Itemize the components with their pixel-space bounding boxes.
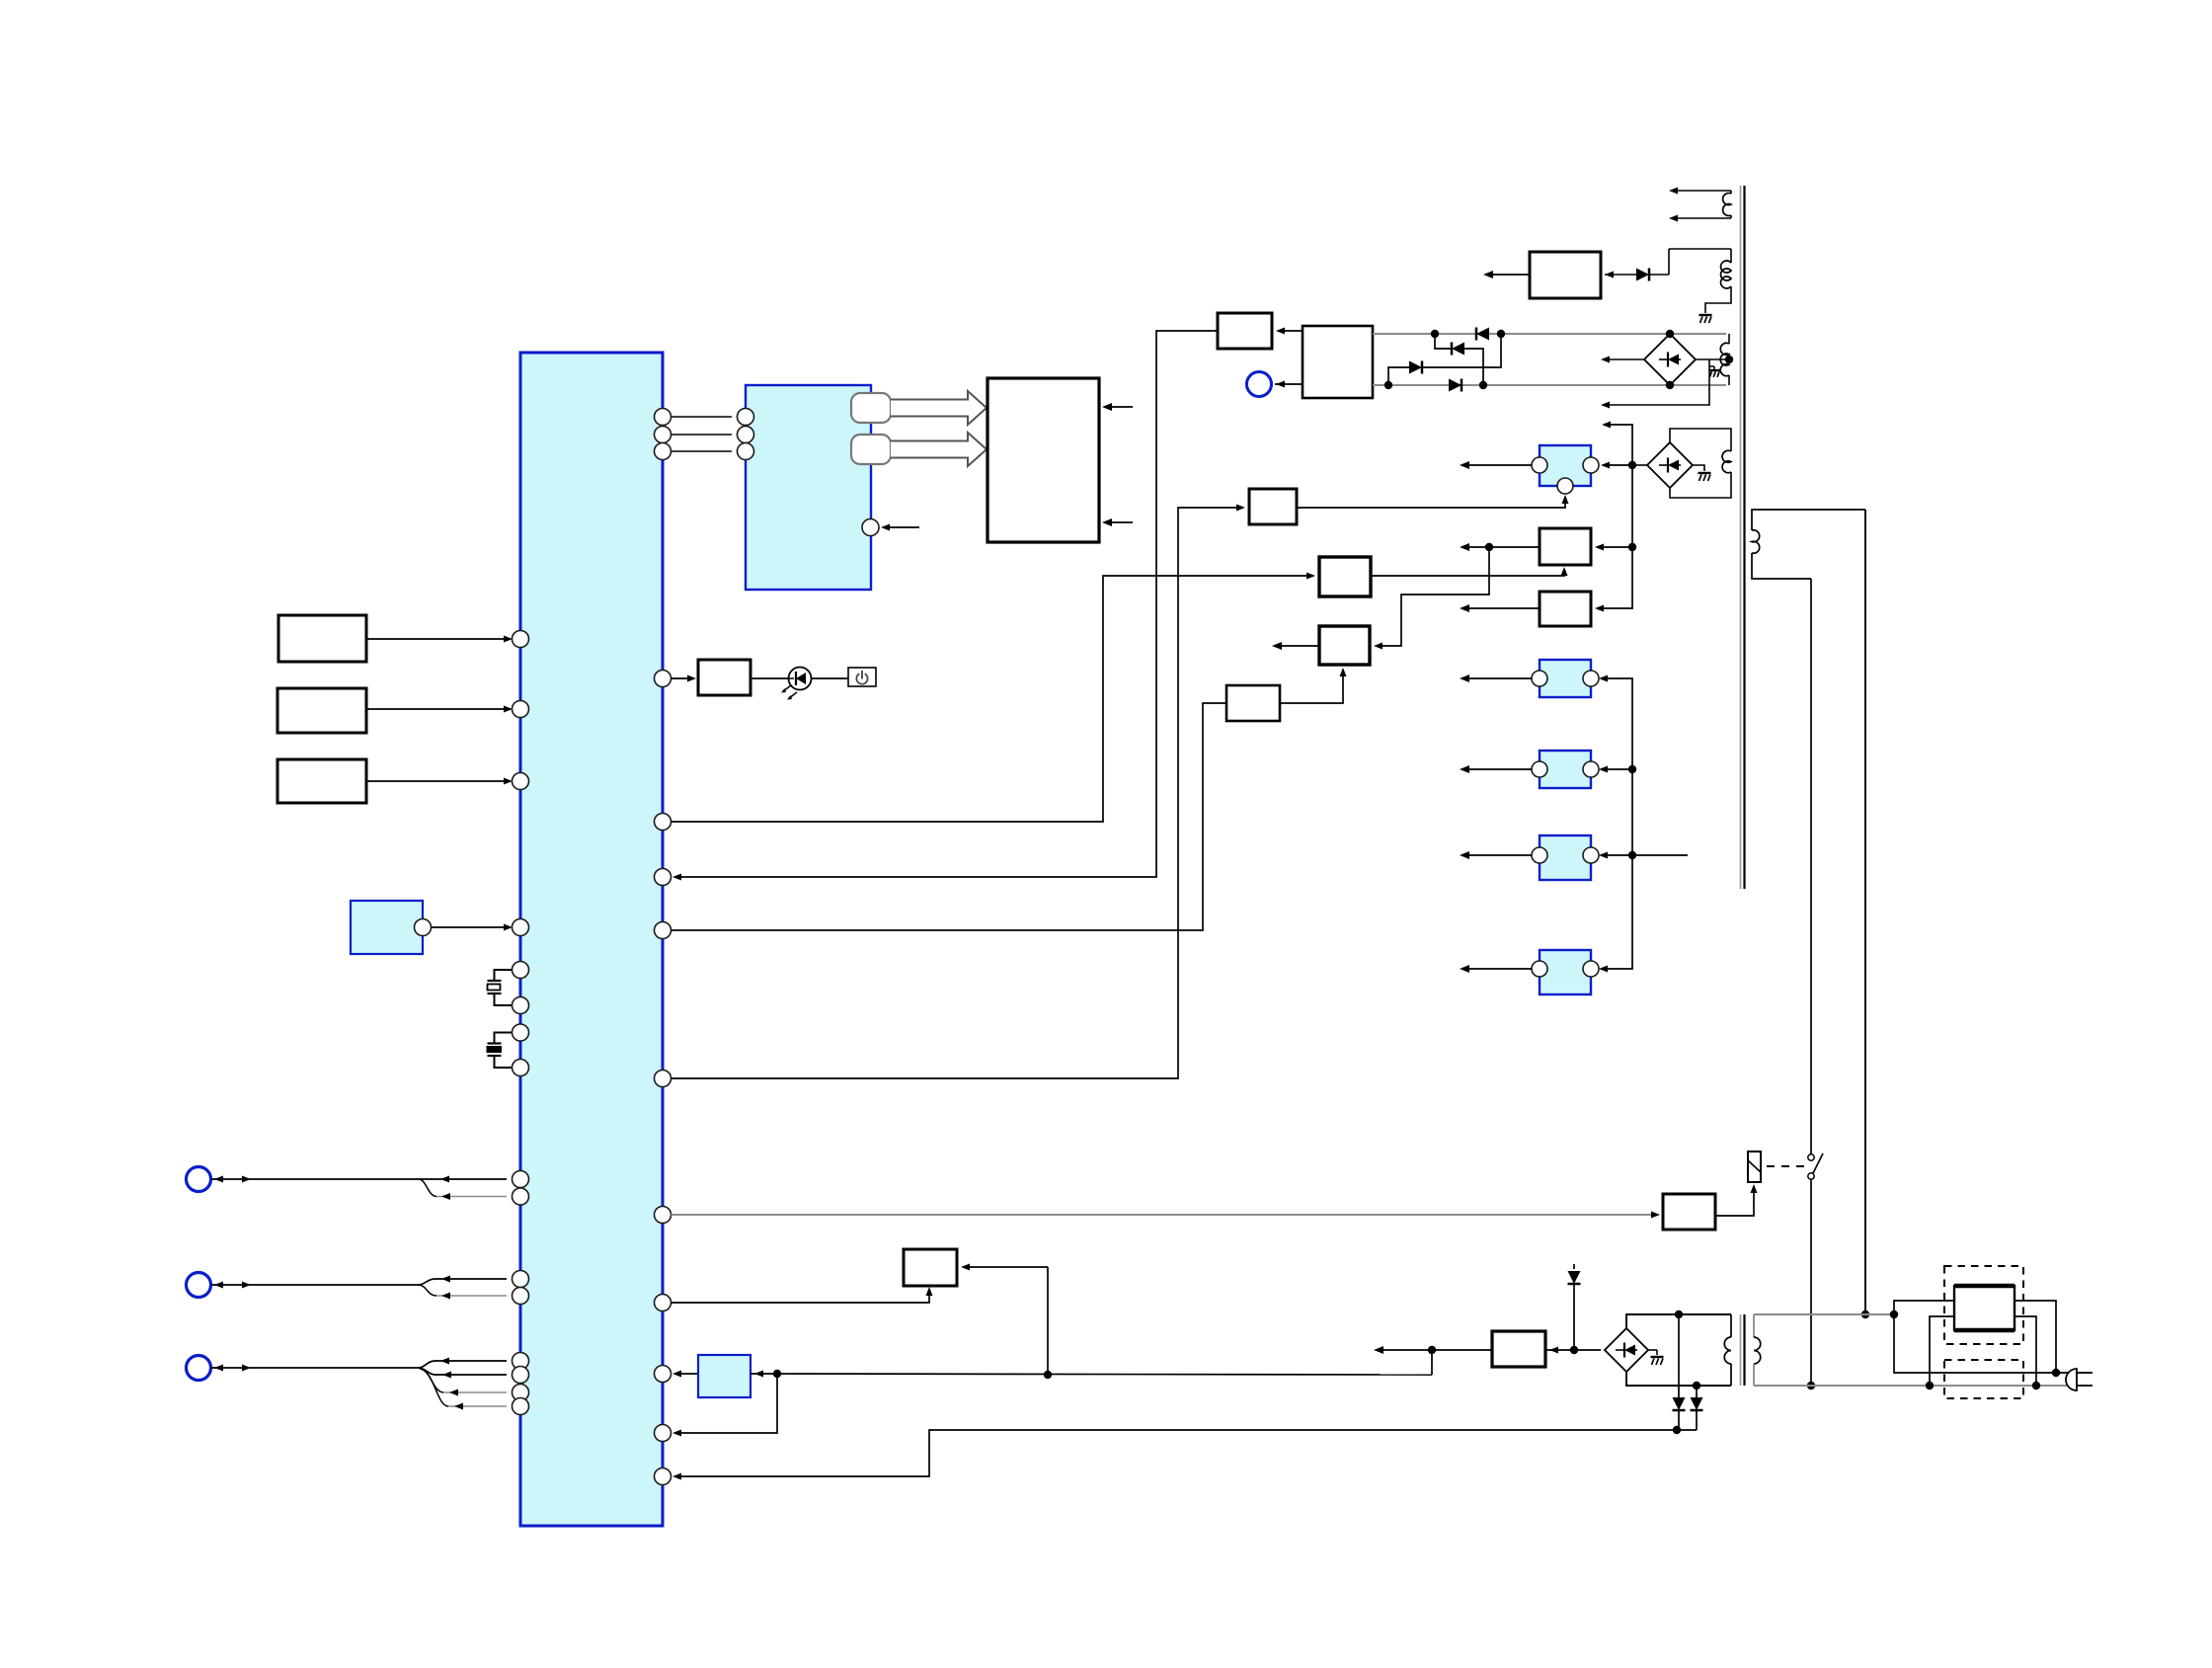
wire J1 main line (211, 1178, 507, 1180)
pin U1 right 1391 (655, 1366, 671, 1383)
pin U1 right bus 1 (655, 409, 671, 426)
bridge rectifier BR2 (middle) with center tap winding (1644, 334, 1696, 385)
wire into box X from BR3 (1545, 1349, 1601, 1351)
wire bus line 2 U1 to U2 (671, 434, 733, 436)
block F box (1226, 685, 1280, 721)
wire J2 branch to upper pin (419, 1279, 434, 1285)
wire box A to REG1 bottom pin (1297, 499, 1565, 508)
wire D901 to box T1 (1605, 274, 1636, 276)
wire pin1495 along bottom to diode pair (677, 1430, 1697, 1476)
wire AC line upper grey (1754, 1313, 1894, 1315)
wire stub input to U3 right upper (1107, 406, 1133, 408)
wire EMI top-right lead (2014, 1301, 2056, 1373)
block EMI filter box (1954, 1286, 2014, 1330)
block P muting control (box fed from U4) (1218, 313, 1272, 349)
IC U3 audio power amplifier (black box) (987, 378, 1099, 542)
ground chassis at BR2 (1709, 365, 1714, 367)
wire bus line 1 U1 to U2 (671, 416, 733, 418)
test point TP1 (blue circle) (1247, 372, 1272, 397)
pin U1 left 1312 (513, 1288, 529, 1305)
pin U1 left 982 (513, 962, 529, 979)
pin U1 left 1424 (513, 1398, 529, 1415)
T902 secondary winding (1730, 1314, 1732, 1337)
IC U1 system control microcontroller (large cyan block) (520, 353, 663, 1526)
ground chassis at BR3 (1648, 1349, 1657, 1351)
jack J1 (audio connector) (187, 1167, 211, 1192)
block A box (regulator driver) (1249, 489, 1297, 524)
wire AC upper continues to plug (1894, 1314, 2077, 1373)
jack J2 (audio connector) (187, 1273, 211, 1298)
wire J2 main line (211, 1284, 419, 1286)
regulator REG1 (cyan box with 3 pins) (1540, 445, 1591, 486)
wire box E output arrow left (1276, 645, 1319, 647)
pin U1 left 1295 (513, 1271, 529, 1288)
wire from box P output down to pin888 (route x1171) (677, 331, 1218, 877)
pin U1 left 718 (513, 701, 529, 718)
block A3 input block 3 (277, 759, 366, 803)
wire pin1092 up to box A (route x1193) (671, 508, 1241, 1078)
diode D1 on upper rail (1431, 330, 1439, 338)
wire U1 pin1230 to relay driver box (long grey) (671, 1214, 1656, 1216)
wire A3 to U1 pin (366, 780, 507, 782)
wire REG1 output arrow left (1463, 464, 1532, 466)
pin U1 right 1092 (655, 1071, 671, 1087)
wire box F to box E bottom (1280, 672, 1343, 703)
pin U1 left 1212 (513, 1188, 529, 1205)
wire LED to power switch button (812, 677, 849, 679)
block A4 sensor module (small cyan box) (351, 901, 423, 954)
pin U2 right circle (input) (862, 519, 879, 536)
pin U1 right 832 (655, 814, 671, 831)
block relay driver box (1663, 1194, 1715, 1230)
wire grey rail lower from U4 to winding W4 (1373, 384, 1726, 386)
ground chassis at W2 (1699, 314, 1712, 316)
wire BR1 ground stub (1693, 465, 1704, 471)
wire J1 second line (grey) with merge curve (419, 1179, 436, 1197)
wire bus line 3 U1 to U2 (671, 450, 733, 452)
wire BR2 aux output arrow (1604, 359, 1709, 405)
IC U2 display driver (small cyan block) (746, 385, 871, 590)
dashed mechanical link relay to switch (1767, 1165, 1805, 1167)
wire V1 branch to box C right (1598, 546, 1632, 548)
pin U1 left 791 (513, 773, 529, 790)
bridge rectifier BR1 (upper) (1647, 442, 1693, 488)
wire box C output left with junction (1463, 546, 1540, 548)
pin U1 right 1319 (655, 1295, 671, 1311)
dashed enclosure lower (1944, 1360, 2023, 1398)
wire feed into box W from junction x1061 (965, 1266, 1048, 1268)
wire x1450 up to zener junction (1431, 1350, 1433, 1375)
wire J2 branch to lower pin (grey) (419, 1285, 436, 1296)
pin U1 left 1378 (513, 1353, 529, 1370)
wire U4 to TP1 (1275, 383, 1303, 385)
wire J3 branch pin 1378 (419, 1361, 434, 1368)
jack J3 (audio connector) (187, 1356, 211, 1381)
transformer T902 power transformer core (1740, 1314, 1742, 1386)
wire switch feed vertical x1834 (1810, 579, 1812, 1153)
wire REG5 output arrow left (1463, 968, 1532, 970)
wire REG2 output arrow left (1463, 677, 1532, 679)
pin U1 right bus 3 (655, 443, 671, 460)
wire U1 to LED driver (671, 677, 691, 679)
winding W4 center tapped (1720, 343, 1729, 375)
wire pin942 up to box F (route x1218) (671, 703, 1227, 930)
diode D3 crossover (1388, 367, 1409, 385)
crystal X1 (ceramic resonator open symbol) (495, 970, 513, 981)
wire main sense line y1392 (750, 1373, 775, 1375)
zener diode D5 above junction (1573, 1264, 1575, 1269)
diode D7 snubber right (1696, 1386, 1698, 1397)
pin U1 left 1410 (513, 1385, 529, 1401)
regulator REG5 (cyan box) (1540, 950, 1591, 994)
wire J3 branch pin 1410 (grey) (419, 1368, 443, 1392)
wire pin1319 to box W bottom (671, 1291, 930, 1303)
pin U1 left 647 (513, 631, 529, 648)
block C box (white) (1540, 528, 1591, 565)
pin U1 left 1018 (513, 997, 529, 1014)
wire AC upper to EMI box top-left (1894, 1301, 1954, 1314)
wire box D output arrow left (1463, 607, 1540, 609)
block B box (1319, 557, 1371, 596)
pin U1 right 1495 (655, 1469, 671, 1485)
pin U1 right 687 (LED drive) (655, 671, 671, 687)
wire driver to LED D-STBY (750, 677, 789, 679)
wire supply rail V2 vertical (1602, 678, 1632, 969)
winding W5 standby aux on T901 core (1752, 510, 1865, 530)
regulator REG2 (cyan box) (1540, 660, 1591, 697)
pin U1 left 1392 (513, 1367, 529, 1384)
wire arrow into pin1391 from box R (677, 1373, 698, 1375)
transformer T901 core (1740, 186, 1742, 889)
wire J3 branch pin 1392 (419, 1368, 435, 1375)
pin U1 left 1194 (513, 1171, 529, 1188)
bus arrow from U2 pad P1 to power amp (891, 391, 987, 425)
winding W2 secondary with rectifier diode D901 (1669, 248, 1731, 250)
pin U1 right bus 2 (655, 427, 671, 443)
wire V1 branch to REG1 right pin (1604, 464, 1632, 466)
T902 primary winding (1753, 1314, 1755, 1337)
wire A1 to U1 pin (366, 638, 507, 640)
wire U4 to box P (1280, 330, 1303, 332)
wire BR2 left vertex output arrow (1604, 358, 1644, 360)
block T1 regulator box (top) (1530, 252, 1601, 298)
wire EMI bottom-left lead (1930, 1316, 1954, 1386)
dashed enclosure upper (line filter) (1944, 1266, 2023, 1344)
wire supply rail V1 vertical (1598, 425, 1632, 608)
LED light emission arrows (783, 685, 791, 691)
pin U1 right 888 (input) (655, 869, 671, 886)
pin U1 right 1230 relay drive (655, 1207, 671, 1224)
wire BR2 right vertex to center tap (1696, 358, 1729, 360)
block LED driver box (698, 660, 750, 695)
winding W1 secondary (top) with output arrows (1673, 190, 1731, 192)
wire BR3 top vertex to transformer secondary top (1626, 1314, 1731, 1328)
block A2 input block 2 (277, 688, 366, 733)
power button with power symbol (848, 668, 876, 686)
pin U2 left bus 1 (738, 409, 754, 426)
pin U2 left bus 3 (738, 443, 754, 460)
ground chassis at BR1 (1698, 472, 1711, 474)
block E box (1319, 626, 1370, 665)
block W box (power detect) (904, 1249, 957, 1286)
wire box C junction to box E input (1377, 547, 1489, 646)
wire REG4 output arrow left (1463, 854, 1532, 856)
wire box X output left arrow and junction (1378, 1349, 1492, 1351)
diode D6 snubber left (1678, 1314, 1680, 1397)
wire grey rail upper from U4 to winding W4 (1373, 333, 1726, 335)
diode D4 on lower rail (1384, 381, 1392, 389)
diode D901 (1668, 249, 1670, 275)
IC U4 main control block (1303, 326, 1373, 398)
regulator REG3 (cyan box) (1540, 751, 1591, 788)
block R small cyan box (power sense) (698, 1355, 750, 1397)
pin A4 output circle (415, 919, 432, 936)
wire aux feed vertical x1889 (1864, 510, 1866, 1314)
winding W3 for BR1 (1670, 429, 1731, 451)
wire J3 branch pin 1424 (grey) (420, 1369, 448, 1406)
LED D-STBY standby indicator (789, 668, 812, 690)
pin U1 left 939 (513, 919, 529, 936)
regulator REG4 (cyan box) (1540, 835, 1591, 880)
pin U1 left 1081 (513, 1060, 529, 1076)
wire A2 to U1 pin (366, 708, 507, 710)
wire BR3 bottom vertex to transformer secondary bottom (1626, 1372, 1731, 1386)
wire stub into U2 right pin (887, 526, 919, 528)
connector pad P1 on U2 (851, 393, 891, 423)
connector pad P2 on U2 (851, 435, 891, 464)
block X box (standby power supply) (1492, 1331, 1545, 1367)
pin U2 left bus 2 (738, 427, 754, 443)
wire driver to relay coil (1715, 1188, 1754, 1216)
block D box (white) (1540, 592, 1591, 626)
wire junction x787 down to pin1451 (677, 1374, 777, 1433)
wire pin832 up to box B (route x1117) (671, 576, 1314, 822)
wire AC line lower grey (1754, 1385, 2076, 1387)
wire box T1 output arrow left (1487, 274, 1530, 276)
crystal X2 (filled resonator) (495, 1033, 513, 1044)
bus arrow from U2 pad P2 to power amp (891, 433, 987, 466)
wire V2 branch to REG4 and stub (1602, 854, 1688, 856)
switch S1 relay contact (1808, 1154, 1814, 1160)
relay RY1 coil box (1748, 1152, 1761, 1182)
diode D2 crossover (1435, 334, 1452, 349)
wire stub input to U3 right lower (1107, 521, 1133, 523)
wire BR1 plus output to V1/REG1 (1636, 464, 1647, 466)
wire V2 branch to REG3 (1602, 768, 1632, 770)
wire J3 main line (211, 1367, 419, 1369)
wire A4 to U1 pin (432, 926, 508, 928)
pin U1 left 1045 (513, 1024, 529, 1041)
AC plug (2066, 1369, 2077, 1390)
wire REG3 output arrow left (1463, 768, 1532, 770)
bridge rectifier BR3 (bottom) (1605, 1328, 1648, 1372)
block A1 input block 1 (top left white box) (278, 615, 366, 662)
wire box B to box C bottom (1371, 571, 1564, 576)
pin U1 right 942 (655, 922, 671, 939)
wire EMI bottom-right lead (2014, 1316, 2036, 1386)
pin U1 right 1451 (655, 1425, 671, 1442)
